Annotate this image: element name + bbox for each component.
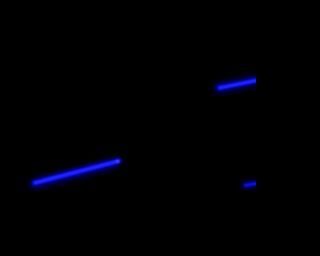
blue light streak 2 (upper right, runs off right edge) bbox=[219, 80, 258, 88]
blue light streak 1 (lower left) bbox=[35, 160, 120, 184]
blue light streak 3 (dim, right middle, runs off right edge) bbox=[245, 183, 258, 185]
